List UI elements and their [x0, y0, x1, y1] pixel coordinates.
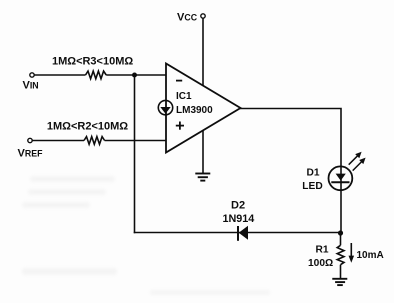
svg-text:D2: D2 [231, 199, 245, 211]
wire VREF to R2 [32, 140, 84, 142]
plus input sign [176, 122, 184, 130]
diode D2 1N914 [238, 226, 248, 241]
wire VCC to op-amp [202, 18, 204, 86]
terminal VCC [201, 14, 205, 18]
wire R1 to ground [340, 265, 342, 279]
terminal VREF [28, 138, 32, 142]
ground below op-amp [195, 174, 210, 181]
terminal VIN [30, 73, 34, 77]
svg-text:LED: LED [302, 181, 322, 192]
wire feedback horizontal [134, 232, 341, 234]
op-amp IC1 LM3900 [166, 64, 241, 153]
current source symbol inside IC1 [158, 100, 172, 114]
current arrow 10mA [349, 243, 355, 263]
svg-text:100Ω: 100Ω [308, 258, 333, 269]
wire R3 to op-amp minus input [106, 74, 166, 76]
svg-text:1N914: 1N914 [223, 213, 255, 225]
svg-text:1MΩ<R2<10MΩ: 1MΩ<R2<10MΩ [47, 121, 128, 133]
svg-text:VREF: VREF [18, 148, 44, 160]
wire op-amp output to LED branch [240, 109, 341, 167]
node junction LED/R1/feedback [338, 230, 343, 235]
wire through LED [340, 167, 342, 234]
resistor R1 [337, 245, 344, 264]
wire op-amp to ground [202, 131, 204, 174]
wire R2 to op-amp plus input [105, 140, 166, 142]
minus input sign [176, 80, 182, 82]
resistor R3 [86, 71, 107, 79]
svg-text:1MΩ<R3<10MΩ: 1MΩ<R3<10MΩ [52, 55, 133, 67]
svg-text:D1: D1 [307, 167, 320, 178]
svg-text:R1: R1 [316, 244, 329, 255]
LED light arrow 2 [353, 158, 366, 171]
LED D1 [329, 166, 353, 190]
LED light arrow 1 [349, 152, 362, 165]
svg-text:VCC: VCC [177, 11, 198, 23]
ground below R1 [332, 279, 347, 285]
wire VIN to R3 [34, 74, 86, 76]
svg-text:IC1: IC1 [176, 91, 192, 102]
wire junction to R1 [340, 233, 342, 245]
svg-text:10mA: 10mA [357, 250, 384, 261]
node junction VIN/R3/feedback [132, 73, 137, 78]
resistor R2 [84, 137, 105, 145]
wire feedback vertical [134, 75, 136, 233]
svg-text:LM3900: LM3900 [176, 105, 213, 116]
svg-text:VIN: VIN [23, 79, 39, 91]
